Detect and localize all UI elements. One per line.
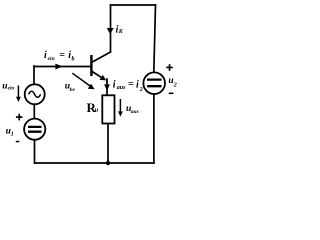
voltage arrow u_aus	[118, 99, 123, 117]
svg-text:ein: ein	[8, 87, 15, 92]
voltage arrow u_be	[72, 73, 94, 89]
label u_aus	[126, 104, 139, 115]
wire right vertical	[154, 5, 156, 73]
load resistor R box	[102, 95, 114, 123]
wire R box to bottom	[107, 124, 109, 164]
current arrow i_ein on base wire	[55, 64, 62, 70]
wire base horizontal	[34, 66, 91, 68]
label u_1	[6, 127, 14, 138]
svg-text:1: 1	[11, 132, 14, 138]
voltage arrow u_ein	[16, 86, 21, 103]
wire emitter down	[106, 79, 108, 95]
svg-text:aus: aus	[131, 109, 139, 115]
AC source sine symbol	[29, 91, 41, 97]
label i_ein = i_b	[44, 50, 75, 63]
DC source U2 bars	[147, 80, 162, 87]
wire collector vertical	[110, 5, 112, 52]
svg-text:i: i	[44, 50, 47, 61]
svg-text:=: =	[128, 79, 134, 90]
label plus of U2	[166, 64, 172, 71]
svg-text:u: u	[95, 106, 99, 113]
svg-text:2: 2	[139, 87, 143, 93]
svg-text:u: u	[2, 81, 7, 91]
label plus of U1	[16, 114, 23, 121]
svg-text:i: i	[113, 80, 116, 91]
svg-text:ein: ein	[48, 56, 55, 62]
transistor Q1 emitter arrowhead	[100, 75, 107, 81]
wire u2 to bottom	[153, 94, 155, 163]
DC source U2 circle	[143, 72, 165, 94]
transistor Q1 emitter lead	[91, 71, 102, 78]
transistor Q1 collector lead	[91, 52, 110, 63]
label minus of U1	[16, 141, 20, 143]
svg-text:be: be	[70, 87, 76, 93]
label i_K	[116, 25, 124, 36]
label u_2	[168, 76, 176, 89]
svg-text:aus: aus	[117, 85, 126, 91]
DC source U1 bars	[28, 127, 42, 132]
wire top	[111, 4, 156, 6]
wire bottom	[35, 162, 154, 164]
current arrow i_aus on emitter wire	[104, 84, 110, 90]
label u_ein	[2, 81, 14, 91]
DC source U1 circle	[24, 119, 45, 140]
wire between sources	[33, 105, 35, 120]
wire left vertical top	[33, 66, 35, 84]
svg-text:=: =	[59, 50, 65, 61]
label R_a	[87, 100, 99, 115]
AC source u_ein circle	[25, 84, 45, 104]
svg-text:b: b	[72, 57, 75, 63]
current arrow i_K on collector wire	[107, 28, 114, 35]
svg-text:i: i	[136, 80, 139, 91]
label minus of U2	[169, 93, 174, 95]
svg-text:2: 2	[173, 83, 177, 89]
label i_aus = i_2	[113, 79, 143, 93]
junction node bottom	[106, 161, 110, 165]
label u_be	[65, 82, 76, 93]
transistor Q1 base bar	[90, 55, 92, 76]
wire u1 to bottom	[34, 140, 36, 163]
